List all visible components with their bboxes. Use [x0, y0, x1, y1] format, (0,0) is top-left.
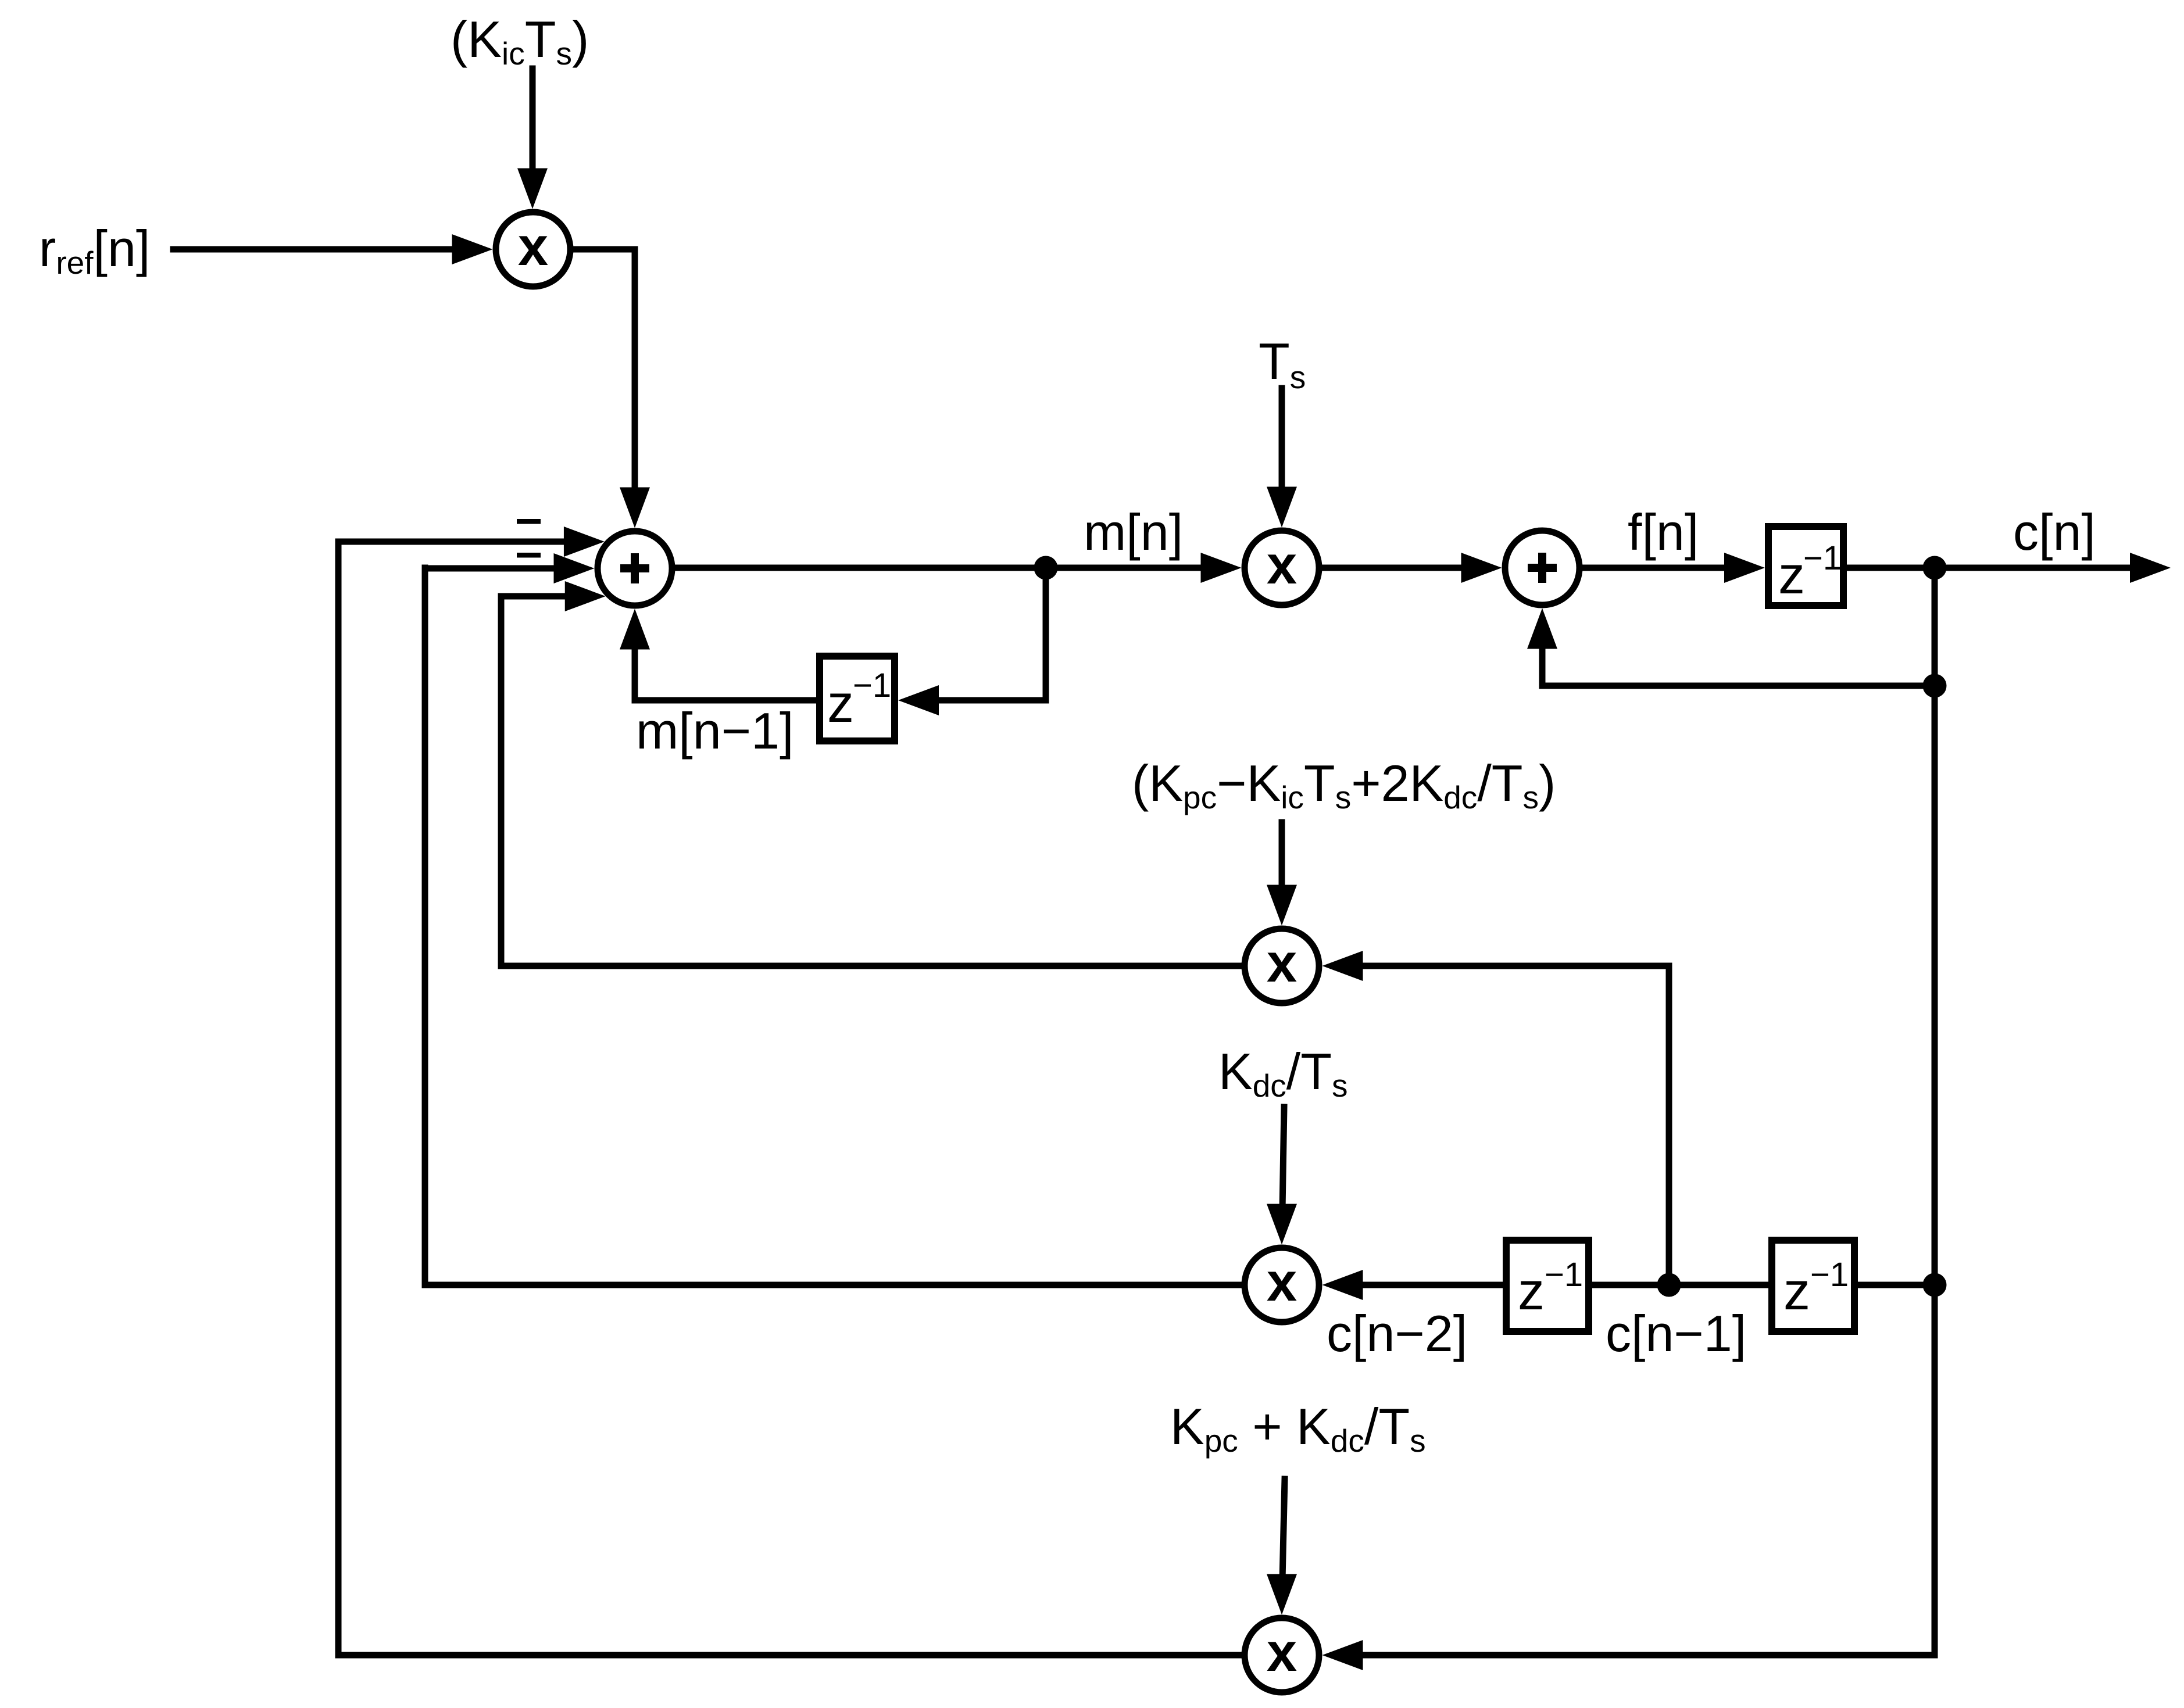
svg-text:z: z	[1783, 1262, 1810, 1321]
svg-text:c[n−1]: c[n−1]	[1606, 1305, 1746, 1362]
svg-text:x: x	[1267, 1251, 1297, 1312]
svg-text:c[n−2]: c[n−2]	[1327, 1305, 1467, 1362]
svg-text:x: x	[1267, 1621, 1297, 1682]
svg-text:x: x	[1267, 534, 1297, 595]
svg-text:rref​[n]: rref​[n]	[39, 220, 150, 281]
svg-text:m[n]: m[n]	[1084, 503, 1183, 561]
svg-text:−1: −1	[1545, 1256, 1583, 1294]
svg-text:c[n]: c[n]	[2013, 503, 2096, 561]
svg-text:z: z	[827, 674, 854, 733]
svg-text:x: x	[518, 216, 548, 277]
svg-text:f[n]: f[n]	[1628, 503, 1699, 561]
svg-text:−1: −1	[1810, 1256, 1849, 1294]
svg-text:z: z	[1778, 546, 1805, 605]
svg-text:m[n−1]: m[n−1]	[636, 702, 793, 760]
svg-text:−1: −1	[1803, 539, 1842, 577]
svg-text:z: z	[1518, 1262, 1545, 1321]
svg-text:x: x	[1267, 932, 1297, 993]
svg-text:−1: −1	[853, 667, 891, 704]
